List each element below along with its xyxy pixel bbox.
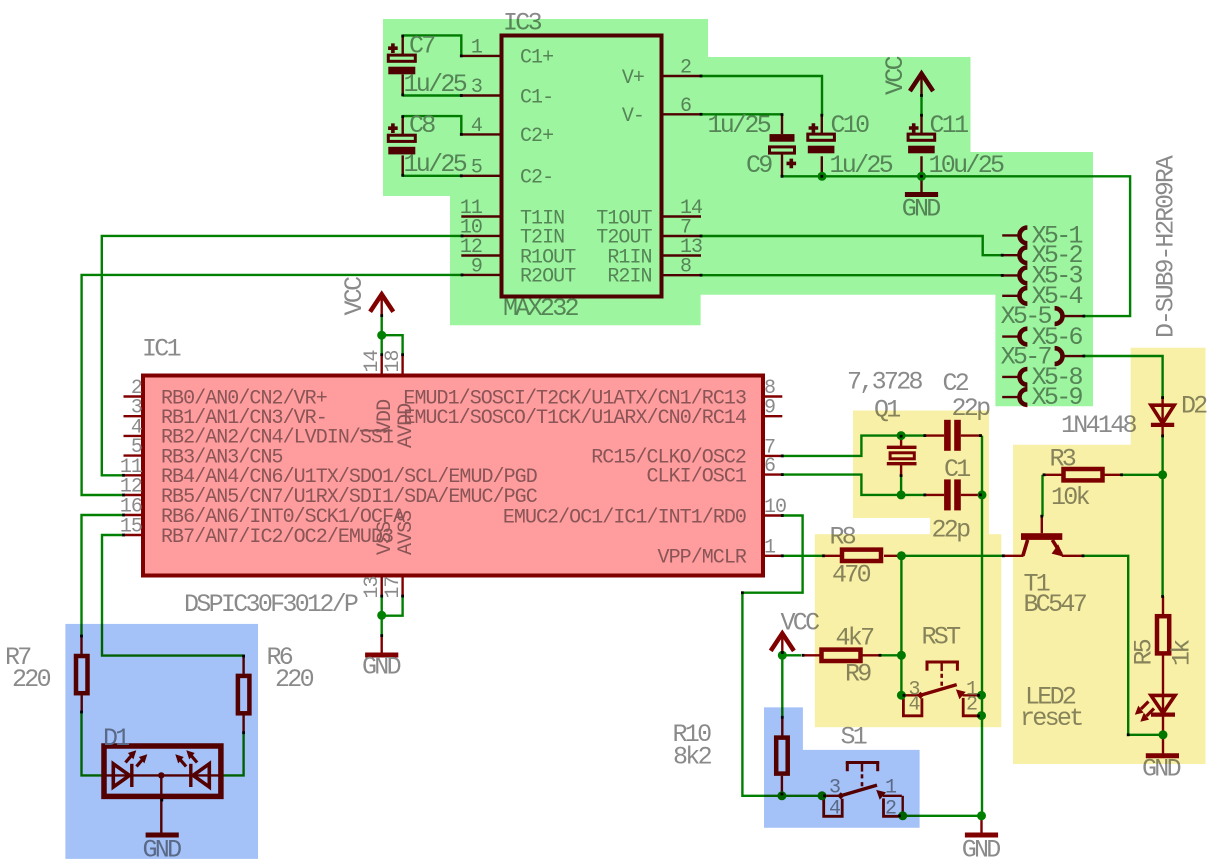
svg-text:7,3728: 7,3728: [847, 368, 923, 397]
svg-text:9: 9: [764, 397, 775, 420]
svg-text:13: 13: [361, 576, 384, 598]
svg-text:VCC: VCC: [781, 609, 820, 638]
svg-text:15: 15: [120, 516, 142, 539]
svg-text:14: 14: [361, 350, 384, 372]
svg-text:D-SUB9-H2R09RA: D-SUB9-H2R09RA: [1152, 155, 1181, 338]
svg-text:6: 6: [764, 455, 775, 478]
svg-text:8k2: 8k2: [673, 743, 712, 772]
svg-text:VCC: VCC: [340, 277, 369, 316]
svg-text:DSPIC30F3012/P: DSPIC30F3012/P: [184, 590, 358, 619]
svg-text:220: 220: [275, 665, 314, 694]
svg-text:GND: GND: [362, 652, 401, 681]
svg-text:220: 220: [12, 665, 51, 694]
svg-text:1: 1: [764, 536, 776, 559]
svg-text:18: 18: [382, 350, 405, 372]
svg-text:1N4148: 1N4148: [1061, 411, 1137, 440]
svg-text:17: 17: [382, 576, 405, 598]
svg-text:GND: GND: [962, 836, 1001, 862]
svg-text:IC1: IC1: [142, 335, 181, 364]
svg-text:10: 10: [764, 496, 786, 519]
